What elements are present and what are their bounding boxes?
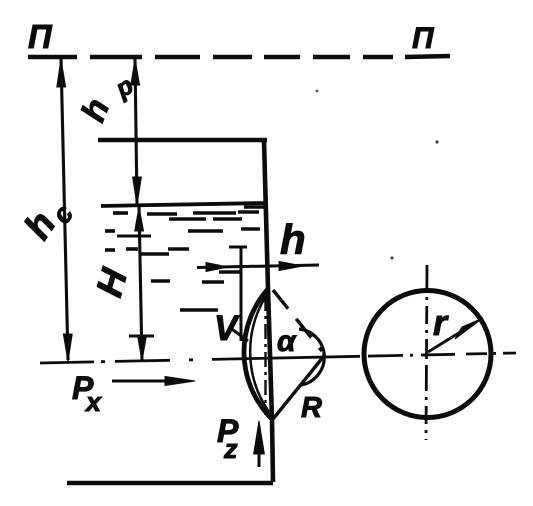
radius arrow r — [428, 326, 470, 352]
water dashes — [105, 207, 265, 310]
svg-text:Π: Π — [28, 18, 53, 55]
extension tick line for h (apex plane) — [240, 248, 243, 341]
svg-text:Π: Π — [412, 22, 435, 55]
wire dimension line hP — [135, 59, 137, 205]
force arrow Pz — [258, 450, 261, 467]
horizontal center line (dash-dot) — [40, 353, 516, 363]
radius line R from center of curvature to cap bottom — [273, 356, 324, 419]
circle (cylinder section) — [364, 291, 491, 418]
tank right wall upper — [264, 140, 268, 289]
label hP — [74, 71, 138, 127]
speck — [435, 140, 438, 143]
dashed radius from cap top to center of curvature — [273, 290, 322, 351]
svg-text:z: z — [223, 434, 238, 464]
cap vertical dash-dot centerline — [264, 296, 266, 415]
force arrow Px — [112, 380, 170, 383]
spherical cap inner arc (double stroke) — [250, 296, 269, 412]
wire dimension line hc — [61, 59, 68, 360]
svg-text:h: h — [280, 216, 306, 263]
tank top line — [98, 138, 267, 143]
liquid surface — [101, 203, 265, 206]
speck — [316, 90, 319, 93]
svg-text:α: α — [277, 325, 297, 358]
label H — [88, 263, 135, 301]
angle alpha arc — [299, 329, 324, 385]
bottom pipe line — [67, 481, 273, 486]
circle vertical centerline — [426, 265, 427, 440]
svg-text:x: x — [84, 387, 102, 417]
leader line from V to cap arc — [229, 327, 248, 341]
wall below cap — [272, 419, 273, 482]
spherical cap arc — [244, 289, 272, 419]
spherical cap chord / wall — [268, 288, 272, 420]
speck — [390, 256, 393, 259]
svg-text:R: R — [301, 392, 322, 424]
label hc — [17, 190, 80, 251]
wire dimension line H — [139, 207, 142, 361]
wire piezometric dashed line П-П — [28, 56, 450, 57]
wire dimension line h — [197, 265, 319, 268]
svg-text:V: V — [214, 309, 240, 348]
svg-text:r: r — [433, 302, 449, 343]
